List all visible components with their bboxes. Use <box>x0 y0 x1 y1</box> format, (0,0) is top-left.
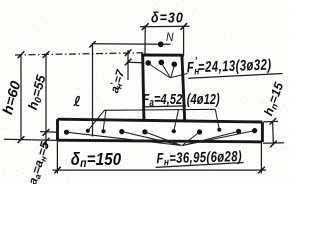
tick bp left <box>54 167 61 174</box>
label delta=30 <box>151 10 184 26</box>
rebar F'n 3d32 dots <box>145 60 177 68</box>
label axis l <box>74 97 80 106</box>
extension vertical bp right <box>260 143 262 174</box>
tick delta right <box>180 23 187 30</box>
leader F'n <box>149 63 188 78</box>
tick delta left <box>142 23 149 30</box>
tick h top <box>18 51 25 58</box>
dash-dot section top line <box>15 53 143 55</box>
wire thin lines <box>4 26 284 174</box>
extension vertical bp left <box>56 141 58 174</box>
dimension line h=60 <box>20 55 22 140</box>
leader Fn fan <box>67 131 255 146</box>
slash ticks <box>18 23 277 173</box>
scan noise overlay <box>0 0 289 184</box>
tick a5 bottom <box>43 138 50 145</box>
rebar level extension line left <box>40 131 58 134</box>
dimension line delta=30 <box>140 25 190 28</box>
dimension line a'n=7 <box>127 50 129 80</box>
tick a'n top <box>125 49 132 56</box>
bottom-left extension line <box>4 139 58 140</box>
dimension line bp=150 <box>53 169 267 171</box>
rebar Fa 4d12 dots <box>86 128 222 134</box>
extension a'n to stem <box>128 61 143 64</box>
stem thin verticals above section top <box>144 26 146 56</box>
tick h0 top <box>43 51 50 58</box>
label N <box>166 31 174 44</box>
force N line <box>93 43 171 46</box>
flange outline bold <box>57 119 262 142</box>
rebar Fn 6d28 dots <box>64 128 257 135</box>
tick h0 bottom <box>43 129 50 136</box>
leader Fa bus <box>88 109 220 131</box>
tick a'n bottom <box>125 59 132 66</box>
dimension line h0=55 <box>45 55 47 133</box>
tick hp bottom <box>270 141 277 148</box>
label F'n value <box>186 53 282 79</box>
force N application dot <box>158 41 164 47</box>
tick hp top <box>270 118 277 125</box>
axis line l <box>92 43 94 137</box>
tick bp right <box>258 167 265 174</box>
extension hp bottom <box>263 142 284 145</box>
tick h bottom <box>18 136 25 143</box>
dimension line a=5 <box>45 133 47 148</box>
tick N line on axis <box>89 41 95 47</box>
extension hp top <box>264 120 279 123</box>
dimension line hp=15 <box>272 121 275 145</box>
label Fn value <box>155 148 243 169</box>
label bp=150 <box>71 150 122 170</box>
label Fa value <box>142 90 219 109</box>
web (stem) outline bold <box>141 55 185 121</box>
